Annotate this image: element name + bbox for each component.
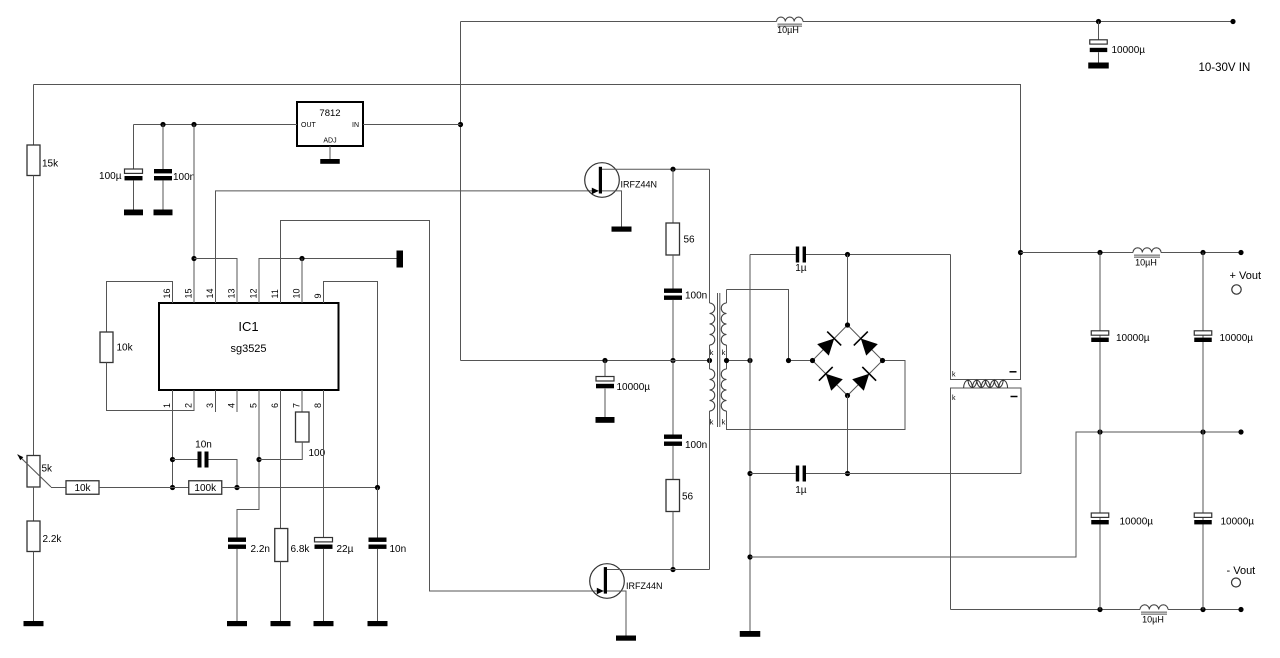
ground Q1 source [612,227,632,232]
wire pin8 to 22u [323,390,325,538]
node 10000u mid [602,358,607,363]
node secondary top corner [786,358,791,363]
wire 7812 OUT [134,124,298,126]
choke mark k upper [952,372,956,379]
node input rail right end [1230,19,1235,24]
wire 100u lead [133,125,135,170]
ground left column [24,621,44,626]
capacitor C 10n (pin9) [369,538,407,556]
wire pin1 down [172,390,174,488]
node bridge left [810,358,815,363]
svg-text:56: 56 [682,492,694,503]
node -rail cap2 [1200,607,1205,612]
diode D2 (right-top) [854,332,878,356]
node bridge minus/1u [845,471,850,476]
capacitor C 22u (pin8) [315,538,354,556]
wire 1u top left [750,254,796,256]
svg-text:100n: 100n [173,172,195,183]
node secondary center tap [724,358,729,363]
svg-text:10000µ: 10000µ [1220,333,1254,344]
wire center tap to 100n lower [672,361,674,435]
svg-text:15k: 15k [42,159,59,170]
svg-text:10n: 10n [195,440,212,451]
wire bridge plus riser [847,255,849,326]
capacitor C 10000u out3 [1091,513,1153,528]
svg-text:IRFZ44N: IRFZ44N [621,180,658,190]
svg-text:k: k [710,348,714,357]
wire Vin to primary center tap [461,360,710,362]
wire +cap column x1203 [1202,253,1204,433]
terminator bar (pins 12,10) [397,251,404,268]
svg-text:k: k [722,418,726,427]
wire Q1 drain [602,168,710,170]
node Q1 drain/snubber [670,167,675,172]
wire output common from ground line [750,432,1241,557]
svg-text:10: 10 [292,288,302,298]
wire 15k to 5k pot [33,176,35,456]
inductor L2 10uH +out [1133,248,1161,268]
transistor Q2 IRFZ44N [590,564,663,599]
capacitor C 100n upper snubber [664,289,707,302]
wire 100R to pin5 node [259,442,302,460]
node pin5/100R [256,457,261,462]
svg-text:100µ: 100µ [99,171,122,182]
wire ground line x750 [749,255,751,632]
node bridge top [845,322,850,327]
wire 10n right [209,460,238,488]
node pin10 junction [299,256,304,261]
wire pin11 to Q2 gate [281,221,604,592]
ground 100n [154,210,173,216]
node pin1/feedback row [170,485,175,490]
svg-text:7: 7 [292,403,302,408]
node OUT/pin15 [191,122,196,127]
node +rail end [1238,250,1243,255]
choke mark k lower [952,395,956,402]
wire 10k bottom to pin2 [107,363,195,411]
wire snubber bottom [672,512,674,570]
svg-text:k: k [722,348,726,357]
wire 100n to ground [162,180,164,209]
wire 10000u input cap to ground [1098,52,1100,62]
bridge diamond wires [813,325,883,396]
wire pin4 stub [236,390,238,412]
wire feedback +Vout to 15k (y=84) [34,85,1021,253]
svg-text:22µ: 22µ [337,544,354,555]
svg-text:5k: 5k [42,464,54,475]
svg-text:10000µ: 10000µ [1112,45,1146,56]
svg-text:sg3525: sg3525 [230,343,266,355]
node choke/+rail [1018,250,1023,255]
wire pin10 [301,259,303,304]
node -rail end [1238,607,1243,612]
wire pin7 to 100R [301,390,303,412]
ground center tap [740,631,761,637]
wire 7812 IN [363,124,461,126]
capacitor C 10000u mid [596,377,650,394]
svg-text:2.2k: 2.2k [43,534,63,545]
svg-text:1µ: 1µ [795,485,807,496]
node ground/output common [747,554,752,559]
resistor R 10k box [66,481,99,495]
node +rail cap1 [1097,250,1102,255]
ground 2.2n [227,621,247,626]
wire 100u to ground [133,180,135,209]
svg-text:12: 12 [249,288,259,298]
svg-text:10000µ: 10000µ [1221,517,1255,528]
node bridge plus riser [845,252,850,257]
transformer primary winding [710,169,715,569]
svg-text:5: 5 [249,403,259,408]
node common cap1 [1097,429,1102,434]
svg-text:8: 8 [313,403,323,408]
node snubber mid [670,358,675,363]
node 7812 IN junction [458,122,463,127]
svg-text:10n: 10n [390,544,407,555]
svg-text:6.8k: 6.8k [291,544,311,555]
capacitor C 10n (pin1) [195,440,212,468]
wire 10n to ground [377,549,379,621]
wire pin3 stub [215,390,217,412]
capacitor 10000u input [1090,40,1108,52]
capacitor C 100n decoupling [154,169,195,183]
svg-text:ADJ: ADJ [323,138,336,145]
node OUT/100n [160,122,165,127]
svg-text:3: 3 [205,403,215,408]
wire 7812 ADJ [329,146,331,159]
node primary center tap [707,358,712,363]
capacitor C 100n lower snubber [664,435,707,452]
ground 100u [124,210,143,216]
ground 22u [314,621,334,626]
wire 10n left [173,459,198,461]
wire 100n lead [162,125,164,170]
svg-text:2: 2 [184,403,194,408]
svg-text:15: 15 [184,288,194,298]
wire bridge minus riser [847,396,849,474]
node pin15/pin13 [191,256,196,261]
wire pin6 to 6.8k [280,390,282,529]
wire 2.2k to ground [33,552,35,622]
node bridge bottom [845,393,850,398]
svg-text:56: 56 [684,235,696,246]
choke upper winding [951,253,1021,380]
label + Vout [1230,270,1262,282]
svg-text:1: 1 [162,403,172,408]
ground 10000u mid [596,417,615,423]
wire 22u to ground [323,549,325,621]
wire 10k box to 100k box [99,487,189,489]
wire Q2 drain [607,569,710,571]
wire pin13 to pin15 [194,259,237,304]
svg-text:- Vout: - Vout [1227,565,1256,577]
capacitor C 100u [99,169,142,182]
label k secondary upper [722,348,726,357]
choke lower winding [951,388,1022,610]
resistor R 2.2k [27,521,62,552]
wire 1u bottom left [750,473,796,475]
wire 100n to 56 lower [672,446,674,480]
wire 5k wiper to 10k box [51,487,66,489]
wire top input rail 10-30V [461,21,1234,23]
node bridge right [880,358,885,363]
wire secondary center tap [727,360,751,362]
capacitor C 2.2n (pin5) [228,538,270,556]
node common cap2 [1200,429,1205,434]
svg-text:10000µ: 10000µ [1120,517,1154,528]
wire 2.2n to ground [236,549,238,621]
wire pin9 node to 10n [377,488,379,538]
wire +Vout rail [1021,252,1242,254]
wire 1u bottom right [806,473,1021,475]
svg-text:10000µ: 10000µ [617,382,651,393]
capacitor C 1u bottom [795,466,807,496]
ground 7812 ADJ [320,159,340,164]
svg-text:10µH: 10µH [1135,258,1157,268]
IC pin numbers top row (16..9) [162,288,323,298]
wire 6.8k to ground [280,562,282,622]
node -rail cap1 [1097,607,1102,612]
wire pin12 to terminator [259,259,397,304]
svg-text:100k: 100k [194,483,217,494]
ground 6.8k [271,621,291,626]
wire secondary top to bridge [727,290,813,361]
diode D1 (left-top) [817,332,841,356]
svg-text:2.2n: 2.2n [251,544,270,555]
transformer secondary winding [721,290,905,430]
terminal + Vout [1232,285,1241,294]
wire pin14 to Q1 gate [216,191,599,303]
node ground/1u bottom [747,471,752,476]
wire 10000u mid lead [604,361,606,377]
wire 100n to center tap [672,300,674,361]
resistor R 100 (pin7) [296,412,326,459]
transformer core [718,293,720,427]
IC U1 sg3525 box [159,303,339,390]
inductor L1 10uH input [777,17,804,26]
wire +cap column x1100 [1099,253,1101,433]
svg-text:16: 16 [162,288,172,298]
svg-text:OUT: OUT [301,122,317,129]
node center tap/ground line [747,358,752,363]
resistor R 15k [27,145,59,176]
resistor R 6.8k (pin6) [275,529,311,562]
wire 5k to 2.2k [33,487,35,521]
wire pin16 to 10k top [107,282,173,333]
wire 1u top right [806,254,951,256]
svg-text:k: k [710,418,714,427]
choke core chain [964,380,1008,388]
svg-text:IC1: IC1 [238,319,258,334]
wire 10000u mid to ground [604,389,606,417]
ground Q2 source [616,636,636,641]
label 10-30V IN [1199,62,1251,74]
svg-text:10µH: 10µH [1142,615,1164,625]
ground input cap [1088,63,1109,69]
diode D3 (bottom-left) [819,367,843,391]
potentiometer P1 5k [18,455,54,488]
node pin9/10n bottom [375,485,380,490]
wire pin9 to feedback row [324,282,378,488]
svg-text:100n: 100n [685,291,707,302]
resistor R 10k (pin16-pin2) [100,332,134,363]
svg-text:4: 4 [227,403,237,408]
ground 10n [368,621,388,626]
inductor L3 10uH -out [1140,605,1168,625]
capacitor C 1u top [795,247,807,274]
svg-text:k: k [952,395,956,402]
label k secondary lower [722,418,726,427]
svg-text:10-30V IN: 10-30V IN [1199,62,1251,74]
resistor R 56 upper [666,223,695,255]
svg-text:9: 9 [313,293,323,298]
wire 10000u input cap lead [1098,22,1100,41]
wire Q1 source [602,191,622,227]
choke dash lower [1011,396,1018,398]
node common end [1238,429,1243,434]
svg-text:1µ: 1µ [795,263,807,274]
node 10n/feedback row [234,485,239,490]
svg-text:13: 13 [227,288,237,298]
svg-text:100n: 100n [685,440,707,451]
wire 56 to 100n [672,255,674,289]
wire snubber top [672,169,674,223]
node Q2 drain/snubber [670,567,675,572]
wire 100k box to pin9 node [222,487,378,489]
capacitor C 10000u out1 [1091,331,1150,344]
svg-text:10µH: 10µH [777,25,799,35]
svg-text:7812: 7812 [319,108,340,119]
wire -cap column x1203 [1202,432,1204,610]
svg-text:11: 11 [270,289,280,298]
label k primary upper [710,348,714,357]
node +rail cap2 [1200,250,1205,255]
label - Vout [1227,565,1256,577]
node input rail / 10000u cap [1096,19,1101,24]
svg-text:10k: 10k [117,343,134,354]
svg-text:IRFZ44N: IRFZ44N [626,581,663,591]
label k primary lower [710,418,714,427]
diode D4 (bottom-right) [852,367,876,391]
node pin1/10n [170,457,175,462]
label 10uH input [777,25,799,35]
wire Q2 source [607,591,626,636]
choke dash upper [1010,371,1017,373]
label 10000u input [1112,45,1146,56]
wire -cap column x1100 [1099,432,1101,610]
wire pin15 to 7812 OUT [193,125,195,304]
svg-text:6: 6 [270,403,280,408]
svg-text:k: k [952,372,956,379]
svg-text:10k: 10k [74,483,91,494]
regulator U2 7812 box [297,102,363,146]
svg-text:14: 14 [205,288,215,298]
capacitor C 10000u out4 [1194,513,1254,528]
terminal - Vout [1232,578,1241,587]
svg-text:+ Vout: + Vout [1230,270,1262,282]
resistor R 56 lower [666,480,694,512]
wire 15k top [33,85,35,146]
svg-text:IN: IN [352,122,359,129]
resistor R 100k box [189,481,222,495]
svg-text:10000µ: 10000µ [1116,333,1150,344]
wire input down feed [460,22,462,361]
IC pin numbers bottom row (1..8) [162,403,323,408]
capacitor C 10000u out2 [1194,331,1253,344]
wire pin5 down to 2.2n [237,390,259,538]
wire -Vout rail [951,609,1242,611]
transistor Q1 IRFZ44N [585,163,657,198]
